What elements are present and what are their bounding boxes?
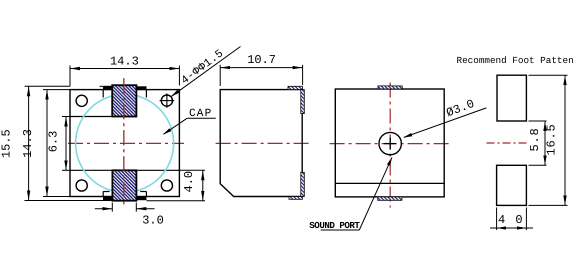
red centerline over pads vertical <box>123 78 125 208</box>
top shoulder tick right <box>145 90 147 98</box>
bottom terminal shoulder right <box>136 197 146 201</box>
svg-text:3.0: 3.0 <box>142 214 164 228</box>
hole bottom-left <box>76 180 87 191</box>
dim 3.0 bottom: dimension lines with inward arrows <box>95 208 113 210</box>
centerline vertical (top view) <box>123 78 125 208</box>
hole bottom-right <box>161 180 172 191</box>
dim 4.0 right: extension lines <box>179 169 205 171</box>
foot pad bottom <box>497 165 527 205</box>
dim 4.0 right: dimension line <box>202 170 204 201</box>
label phi3.0 leader <box>404 108 487 137</box>
svg-text:Recommend Foot Patten: Recommend Foot Patten <box>457 55 574 66</box>
centerline horizontal (side view) <box>216 142 313 144</box>
dim 6.3: extension lines <box>62 116 70 118</box>
svg-text:5.8: 5.8 <box>528 127 542 151</box>
bottom terminal shoulder left <box>103 197 112 201</box>
hole top-right with crosshair <box>161 95 172 106</box>
sound port crosshair <box>384 143 396 145</box>
front top terminal tab (hatched) <box>378 86 402 89</box>
centerline horizontal (front view) <box>330 143 450 145</box>
sound port circle <box>379 132 401 154</box>
svg-text:4.0: 4.0 <box>182 171 196 193</box>
dim 16.5: dimension line <box>564 75 566 205</box>
side bottom terminal foot (hatched) <box>289 197 302 200</box>
centerline horizontal (foot pattern) <box>487 142 529 144</box>
dim 14.3 top: dimension line <box>70 68 179 70</box>
dim 14.3 top: extension lines <box>69 66 71 87</box>
svg-text:14.3: 14.3 <box>21 129 35 158</box>
svg-text:CAP: CAP <box>189 108 212 120</box>
foot pad top <box>497 75 526 121</box>
bottom shoulder tick left <box>102 192 104 197</box>
body outline square <box>70 90 179 197</box>
bottom terminal pad (hatched) <box>112 170 136 200</box>
label 4-phi1.5 leader <box>172 47 241 97</box>
dim 15.5: dimension line <box>28 86 30 200</box>
svg-text:10.7: 10.7 <box>247 53 276 67</box>
dim 10.7: dimension line <box>220 67 302 69</box>
terminal edge line upper <box>70 116 136 118</box>
dim 10.7: extension lines <box>219 65 221 86</box>
cap circle <box>76 94 174 192</box>
side body outline with chamfer <box>220 90 302 197</box>
svg-text:6.3: 6.3 <box>47 131 61 153</box>
bottom shoulder tick right <box>145 192 147 197</box>
dim 3.0 bottom: extension lines <box>111 203 113 212</box>
centerline horizontal (top view) <box>68 142 184 144</box>
dim 14.3 left: dimension line <box>46 90 48 197</box>
label CAP leader <box>187 117 216 119</box>
top terminal shoulder right <box>136 86 146 90</box>
dim 4.0 foot: dimension line <box>490 227 533 229</box>
svg-text:4 0: 4 0 <box>498 213 524 227</box>
top terminal pad (hatched) <box>112 85 136 116</box>
front bottom terminal tab (hatched) <box>378 197 402 200</box>
terminal edge line lower <box>70 169 179 171</box>
label SOUND PORT leader <box>321 229 360 231</box>
dim 16.5: extension lines <box>529 74 568 76</box>
svg-text:16.5: 16.5 <box>544 123 558 155</box>
top terminal shoulder left <box>103 86 112 90</box>
side right terminal strip bottom <box>301 172 305 196</box>
bottom shoulder stub left <box>103 191 109 193</box>
hole top-left <box>76 95 87 106</box>
dim 4.0 foot: extension lines <box>496 208 498 231</box>
bottom shoulder stub right <box>140 191 146 193</box>
dim 14.3 left: extension lines <box>43 89 70 91</box>
svg-text:4-ΦΦ1.5: 4-ΦΦ1.5 <box>179 48 226 88</box>
svg-text:15.5: 15.5 <box>0 129 14 158</box>
side top terminal cap (hatched) <box>288 86 302 89</box>
side right terminal strip top <box>301 90 305 114</box>
dim 6.3: dimension line <box>65 117 67 171</box>
front base separator line <box>335 182 444 184</box>
dim 5.8: extension lines <box>529 120 547 122</box>
centerline vertical (front view) <box>389 83 391 208</box>
top shoulder tick left <box>102 90 104 98</box>
dim 15.5: extension lines <box>25 85 71 87</box>
svg-text:14.3: 14.3 <box>110 55 139 69</box>
dim 5.8: dimension line <box>544 121 546 165</box>
front body outline <box>335 89 444 197</box>
